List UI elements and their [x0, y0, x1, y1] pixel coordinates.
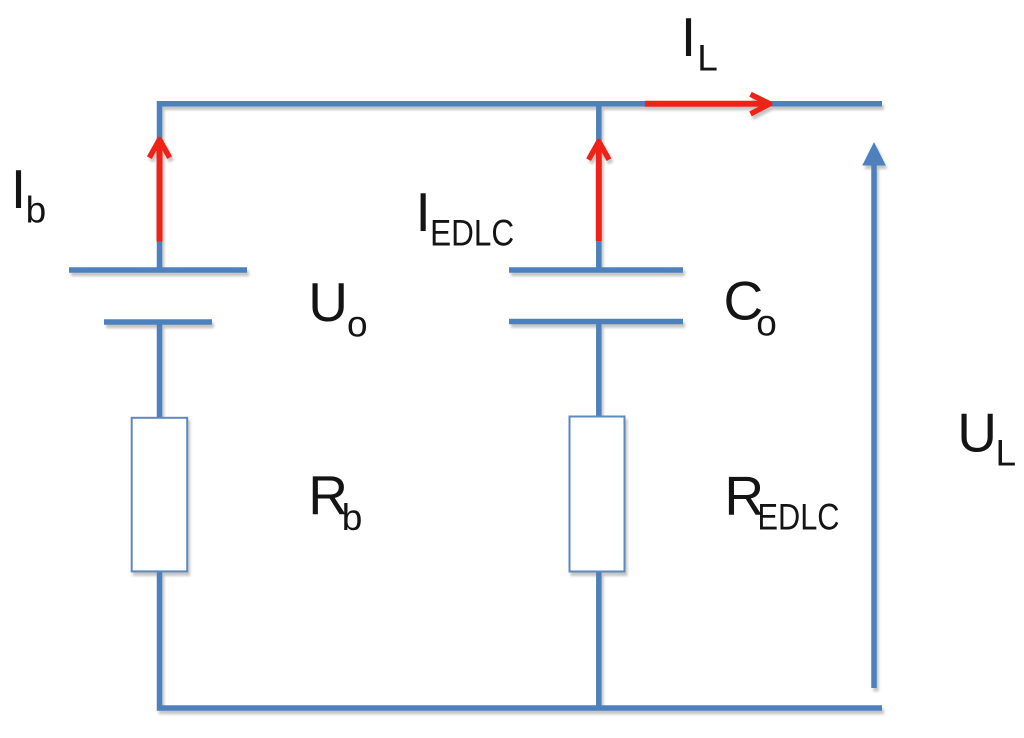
- svg-text:o: o: [347, 304, 368, 345]
- svg-text:b: b: [26, 190, 47, 231]
- svg-text:EDLC: EDLC: [430, 212, 514, 253]
- svg-text:I: I: [11, 158, 26, 220]
- svg-text:I: I: [416, 181, 431, 243]
- svg-text:I: I: [681, 6, 696, 68]
- svg-text:b: b: [342, 497, 363, 538]
- svg-text:U: U: [957, 402, 997, 464]
- svg-text:L: L: [697, 38, 718, 79]
- svg-text:U: U: [308, 271, 348, 333]
- svg-text:EDLC: EDLC: [758, 497, 840, 538]
- svg-text:L: L: [996, 433, 1017, 474]
- svg-text:o: o: [756, 303, 777, 344]
